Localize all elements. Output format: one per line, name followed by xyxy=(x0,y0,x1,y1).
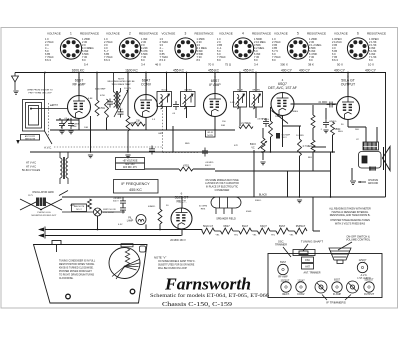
svg-text:VC: VC xyxy=(356,139,359,141)
svg-text:RESISTANCE: RESISTANCE xyxy=(80,31,99,35)
wire junction dots xyxy=(44,72,349,231)
layout tube rectifier xyxy=(281,282,291,292)
chassis rear view (dial drum panel) xyxy=(34,241,148,304)
loop antenna note text xyxy=(27,89,53,95)
svg-text:MESH POSITION WHEN TUNING: MESH POSITION WHEN TUNING xyxy=(59,264,95,266)
svg-text:2: 2 xyxy=(129,31,131,35)
svg-text:LAMP: LAMP xyxy=(127,219,134,222)
svg-text:A 25 MFD 25 VOLT CAPACITOR: A 25 MFD 25 VOLT CAPACITOR xyxy=(205,182,239,185)
svg-text:AT V AC: AT V AC xyxy=(26,164,36,168)
layout tube 12SQ7 AVC 1st audio xyxy=(357,262,367,272)
svg-text:8 0: 8 0 xyxy=(197,58,201,62)
svg-text:CLOCKWISE.: CLOCKWISE. xyxy=(59,278,74,280)
svg-text:IF FREQUENCY: IF FREQUENCY xyxy=(121,182,150,186)
svg-text:300 X: 300 X xyxy=(280,63,288,67)
svg-text:GRN: GRN xyxy=(158,133,163,135)
svg-text:600 V: 600 V xyxy=(205,165,211,167)
svg-text:Schematic for models ET-064, E: Schematic for models ET-064, ET-065, ET-… xyxy=(150,292,269,299)
svg-text:6R 4F: 6R 4F xyxy=(207,132,213,134)
svg-text:5: 5 xyxy=(297,31,299,35)
svg-text:.02MFD: .02MFD xyxy=(329,121,337,123)
svg-text:4700: 4700 xyxy=(100,95,106,97)
note box near switch xyxy=(72,204,87,212)
svg-text:1600 KC: 1600 KC xyxy=(72,68,85,72)
antenna rotor label box xyxy=(21,135,40,141)
tube V1 6SS7 RF AMP xyxy=(68,75,91,119)
svg-text:20 MFD 150 V: 20 MFD 150 V xyxy=(170,239,186,242)
tube socket diagram 3 (VOLTAGE 3 RESISTANCE pin chart) xyxy=(160,31,214,62)
svg-text:NO. 2: NO. 2 xyxy=(76,209,82,211)
svg-text:PRI?? TERM OF LOOP: PRI?? TERM OF LOOP xyxy=(28,92,52,94)
capacitor C15 500MMF xyxy=(276,133,280,139)
capacitor C3 osc padder xyxy=(118,109,124,118)
capacitor C11 B+ bypass xyxy=(149,146,155,155)
tube socket diagram 2 (VOLTAGE 2 RESISTANCE pin chart) xyxy=(104,31,158,62)
svg-text:OSC: OSC xyxy=(118,109,123,111)
svg-text:2.2 MEG: 2.2 MEG xyxy=(241,122,251,125)
capacitor C9 IF coupling xyxy=(173,101,179,110)
note V text xyxy=(154,255,196,270)
svg-text:12SA7: 12SA7 xyxy=(297,279,305,282)
svg-text:10K: 10K xyxy=(137,123,141,125)
svg-text:A.V.C.: A.V.C. xyxy=(44,146,52,150)
svg-text:50L6 GT: 50L6 GT xyxy=(203,224,214,228)
capacitor C7 line bypass .05MFD xyxy=(120,198,126,207)
svg-text:12SQ7: 12SQ7 xyxy=(359,259,367,262)
svg-text:35Z5GT: 35Z5GT xyxy=(281,279,290,282)
layout tube 6SS7 RF AMP xyxy=(278,264,288,274)
tuning condenser note (inside panel) xyxy=(59,261,96,281)
RF antenna trimmer arrow xyxy=(61,119,69,128)
svg-text:BLK: BLK xyxy=(308,157,313,159)
svg-text:75 Ω: 75 Ω xyxy=(225,63,232,67)
svg-text:IF AMP: IF AMP xyxy=(333,293,342,296)
svg-text:BLACK: BLACK xyxy=(259,193,268,196)
svg-text:Farnsworth: Farnsworth xyxy=(164,275,251,294)
svg-text:VOLTAGE: VOLTAGE xyxy=(274,31,288,35)
svg-text:VOL CONT: VOL CONT xyxy=(103,212,115,214)
svg-text:6SS7: 6SS7 xyxy=(334,278,341,281)
svg-text:8 0: 8 0 xyxy=(141,58,145,62)
svg-text:SPEAKER FIELD: SPEAKER FIELD xyxy=(216,217,236,220)
volume control R11 500K with arrow xyxy=(261,138,265,152)
diode return diagonal xyxy=(272,111,289,124)
tube socket diagram 1 (VOLTAGE 1 RESISTANCE pin chart) xyxy=(45,31,99,62)
wave trap note xyxy=(107,78,135,86)
svg-text:6SS7: 6SS7 xyxy=(223,224,230,228)
svg-text:TRIM: TRIM xyxy=(71,126,77,128)
svg-text:REG: REG xyxy=(338,131,343,133)
resistor R12 15K screen xyxy=(131,122,145,126)
svg-text:455 KC: 455 KC xyxy=(129,188,142,192)
svg-text:OSC: OSC xyxy=(305,259,310,262)
chassis top view box xyxy=(268,254,382,298)
IF transformer T1 secondary xyxy=(181,92,196,109)
svg-text:RED: RED xyxy=(70,205,75,207)
svg-text:ON SOME MODELS MAY HAVE: ON SOME MODELS MAY HAVE xyxy=(205,179,239,182)
svg-text:ON SOME MODELS DASH THAT F..: ON SOME MODELS DASH THAT F.. xyxy=(158,260,196,263)
svg-text:NOTE: NOTE xyxy=(118,78,125,80)
B voltage note box xyxy=(116,158,145,170)
svg-text:12-475: 12-475 xyxy=(124,88,132,90)
resistor R10 surge xyxy=(158,209,162,224)
tube V6 35Z5GT RECT xyxy=(171,192,192,229)
svg-text:470Ω: 470Ω xyxy=(99,107,105,110)
svg-text:8 6.3: 8 6.3 xyxy=(45,58,51,62)
layout IF trimmer 1 xyxy=(315,281,327,293)
capacitor C1 cathode bypass xyxy=(59,120,65,129)
svg-text:OSCILLATOR GRID: OSCILLATOR GRID xyxy=(32,191,54,194)
layout tube 6SS7 IF AMP xyxy=(332,282,342,292)
svg-text:6: 6 xyxy=(357,31,359,35)
resistor R1 470 ohm xyxy=(95,100,99,116)
svg-text:RES: RES xyxy=(201,208,206,210)
svg-text:.05 MFD: .05 MFD xyxy=(205,162,214,164)
svg-text:VOLTAGE: VOLTAGE xyxy=(162,31,176,35)
svg-text:50Ω: 50Ω xyxy=(221,125,225,127)
electrolytic note text xyxy=(205,179,239,192)
svg-text:50 X: 50 X xyxy=(337,63,343,67)
resistor R6 grid leak xyxy=(311,115,315,128)
tuning shaft bracket xyxy=(293,250,315,256)
svg-text:8 6.3: 8 6.3 xyxy=(160,58,166,62)
measurement labels under socket charts xyxy=(84,63,374,67)
svg-text:4FF RD: 47V: 4FF RD: 47V xyxy=(123,166,137,169)
svg-text:6SQ7: 6SQ7 xyxy=(260,224,267,228)
svg-text:TUNING SHAFT: TUNING SHAFT xyxy=(301,240,323,244)
svg-text:RF ANT: RF ANT xyxy=(71,122,79,125)
on-off switch S1 xyxy=(62,208,125,216)
svg-text:455 KC: 455 KC xyxy=(173,68,185,72)
svg-text:47K: 47K xyxy=(234,145,238,147)
svg-text:RESISTANCE: RESISTANCE xyxy=(195,31,214,35)
svg-text:470Ω: 470Ω xyxy=(183,165,189,168)
svg-text:FIELD: FIELD xyxy=(255,200,262,202)
loop antenna L1 xyxy=(23,73,68,145)
svg-text:ANT: ANT xyxy=(50,104,55,107)
svg-text:TO RIGHT. DRIVE DRUM TURNS: TO RIGHT. DRIVE DRUM TURNS xyxy=(59,275,94,277)
osc trimmer callout xyxy=(275,239,287,246)
filter choke L3 xyxy=(60,152,68,184)
surge resistor note xyxy=(199,206,207,211)
svg-text:6.8K: 6.8K xyxy=(88,98,93,100)
svg-text:WITH 3 VOLTS FIXED BIAS: WITH 3 VOLTS FIXED BIAS xyxy=(335,222,366,225)
misc component value labels xyxy=(28,88,360,226)
svg-text:4.7MEG: 4.7MEG xyxy=(290,111,298,113)
IF frequency note (boxed) xyxy=(114,180,159,194)
line voltage text xyxy=(22,161,41,173)
tube socket diagram 6 (VOLTAGE 6 RESISTANCE pin chart) xyxy=(332,31,386,62)
svg-text:6SA7: 6SA7 xyxy=(242,224,249,228)
svg-text:600 V: 600 V xyxy=(113,201,119,203)
oscillator coil L2 xyxy=(114,73,121,109)
svg-text:NOTE: NOTE xyxy=(207,135,213,137)
svg-text:CHASSIS: CHASSIS xyxy=(368,179,379,182)
svg-text:KNOB IS TURNED CLOCKWISE.: KNOB IS TURNED CLOCKWISE. xyxy=(59,268,94,270)
svg-text:AT V AC: AT V AC xyxy=(26,161,36,165)
svg-text:RESISTANCE: RESISTANCE xyxy=(307,31,326,35)
svg-text:RESISTANCE: RESISTANCE xyxy=(252,31,271,35)
speaker ground note xyxy=(368,179,379,185)
tube V2 6SA7 CONV xyxy=(135,75,158,118)
layout tube converter xyxy=(296,282,306,292)
svg-text:DET, AVC, 1ST AF: DET, AVC, 1ST AF xyxy=(268,86,297,90)
IF transformer T2 primary xyxy=(234,92,247,109)
svg-text:VOLTAGE: VOLTAGE xyxy=(106,31,120,35)
svg-text:IN PLACE OF ELECTROLYTIC: IN PLACE OF ELECTROLYTIC xyxy=(206,186,238,189)
svg-text:400 CY: 400 CY xyxy=(281,68,293,72)
tube socket diagram 4 (VOLTAGE 4 RESISTANCE pin chart) xyxy=(217,31,271,62)
svg-text:400 CY: 400 CY xyxy=(334,68,346,72)
layout osc/ant trimmer blocks xyxy=(302,257,314,269)
resistor R13 line dropping xyxy=(88,199,92,209)
svg-text:IF TRIMMERS: IF TRIMMERS xyxy=(326,300,345,304)
svg-text:ANT: ANT xyxy=(305,266,310,269)
svg-text:3.4: 3.4 xyxy=(254,63,258,67)
svg-text:455 KC: 455 KC xyxy=(243,68,255,72)
resistor R7 150 ohm cathode xyxy=(331,122,335,135)
svg-text:40MFD: 40MFD xyxy=(148,206,156,208)
svg-text:5.4: 5.4 xyxy=(84,63,88,67)
svg-text:WIRE FROM STATOR TO: WIRE FROM STATOR TO xyxy=(27,89,53,92)
svg-text:400 CY: 400 CY xyxy=(299,68,311,72)
svg-text:OUTPUT: OUTPUT xyxy=(364,293,375,296)
svg-text:8 6.3: 8 6.3 xyxy=(332,58,338,62)
svg-text:VOLTAGE: VOLTAGE xyxy=(47,31,61,35)
IF shield dashed line xyxy=(163,101,199,153)
speaker frame with field coil xyxy=(359,152,382,171)
svg-text:450Ω: 450Ω xyxy=(246,211,252,213)
alignment frequency labels on rail xyxy=(72,68,377,72)
svg-text:70 X: 70 X xyxy=(208,63,214,67)
svg-text:CONDENSER: CONDENSER xyxy=(215,190,230,192)
svg-text:4: 4 xyxy=(242,31,244,35)
svg-text:10 X: 10 X xyxy=(368,63,374,67)
tube V4 6SQ7 DET AVC 1ST AF xyxy=(268,78,297,115)
svg-text:SEE NOTE: SEE NOTE xyxy=(74,206,85,208)
svg-text:8 0: 8 0 xyxy=(369,58,373,62)
oscillator tuning arrow xyxy=(114,90,129,118)
resistor R8 2.2 MEG xyxy=(239,125,253,129)
svg-text:ANT ROTR: ANT ROTR xyxy=(25,135,36,138)
svg-text:4.7 MEG: 4.7 MEG xyxy=(303,145,313,148)
svg-text:46 X: 46 X xyxy=(155,63,161,67)
svg-text:SUBSTITUTED FOR 50 OR MORE: SUBSTITUTED FOR 50 OR MORE xyxy=(158,265,195,267)
svg-text:VOLTAGE: VOLTAGE xyxy=(334,31,348,35)
resistor R3 20K osc grid xyxy=(126,116,130,131)
svg-text:Chassis C-150, C-159: Chassis C-150, C-159 xyxy=(162,302,232,308)
svg-text:50L6GT: 50L6GT xyxy=(364,278,374,281)
svg-text:MOUNTED BY RED DOT: MOUNTED BY RED DOT xyxy=(32,215,58,217)
output transformer T3 (hatched winding) xyxy=(363,142,379,150)
svg-text:PHONO LUG: PHONO LUG xyxy=(37,212,50,214)
capacitor C8 filter xyxy=(120,205,126,214)
svg-text:3.4: 3.4 xyxy=(141,63,145,67)
plug note text xyxy=(32,212,58,217)
svg-text:117V: 117V xyxy=(28,195,33,197)
loudspeaker SP1 cone xyxy=(383,147,391,171)
svg-text:8 6.3: 8 6.3 xyxy=(104,58,110,62)
svg-text:8 0: 8 0 xyxy=(217,58,221,62)
ground symbols xyxy=(59,130,328,203)
AC plug blades xyxy=(38,228,44,232)
schematic interconnect wires xyxy=(30,73,386,236)
svg-text:1: 1 xyxy=(70,31,72,35)
svg-text:8 0: 8 0 xyxy=(309,58,313,62)
IF transformer lead color labels xyxy=(162,89,261,91)
svg-text:RESISTANCE, AND TAKEN FROM B-: RESISTANCE, AND TAKEN FROM B- xyxy=(330,214,371,217)
electrolytic filter condenser C10 xyxy=(211,197,241,214)
svg-text:TUNING CONDENSER IS IN FULL: TUNING CONDENSER IS IN FULL xyxy=(59,261,96,263)
svg-text:50 OHM: 50 OHM xyxy=(199,206,207,208)
capacitor C2 screen bypass xyxy=(68,120,74,129)
svg-text:8 0: 8 0 xyxy=(254,58,258,62)
svg-text:CONV.: CONV. xyxy=(297,293,305,296)
svg-text:10 MFD: 10 MFD xyxy=(296,135,304,137)
svg-text:GROUND: GROUND xyxy=(368,183,379,185)
svg-text:WILL BE FOUND ON LOOP: WILL BE FOUND ON LOOP xyxy=(158,268,187,270)
svg-text:6SS7: 6SS7 xyxy=(280,261,287,264)
svg-text:10MMF: 10MMF xyxy=(275,116,283,118)
svg-text:POINTER MOVES FROM LEFT: POINTER MOVES FROM LEFT xyxy=(59,271,92,273)
svg-text:RED: RED xyxy=(185,143,190,145)
svg-text:1 MEG: 1 MEG xyxy=(262,119,269,121)
B+ top rail wire xyxy=(15,72,386,74)
capacitor C5 .01 MFD coupling xyxy=(327,102,336,108)
oscillator coil with crossed leads xyxy=(20,191,68,211)
svg-text:6.3V: 6.3V xyxy=(118,224,123,226)
svg-text:GREEN: GREEN xyxy=(184,89,192,91)
resistor R9 470 ohm B+ dropping xyxy=(179,167,193,171)
IF transformer T2 secondary xyxy=(250,92,263,109)
capacitor C12 filter input xyxy=(202,148,208,157)
svg-text:WELL INSULATED MAY BE: WELL INSULATED MAY BE xyxy=(107,80,135,83)
pilot lamp xyxy=(136,215,146,225)
tube V5 50L6GT OUTPUT xyxy=(337,75,360,120)
svg-text:35Z5GT: 35Z5GT xyxy=(296,224,306,228)
svg-text:VOLTAGE: VOLTAGE xyxy=(219,31,233,35)
svg-text:RF AMP: RF AMP xyxy=(278,276,288,279)
svg-text:RESISTANCE: RESISTANCE xyxy=(139,31,158,35)
svg-text:50-60 CYCLES: 50-60 CYCLES xyxy=(22,168,41,172)
svg-text:3: 3 xyxy=(185,31,187,35)
svg-text:NOTE “V”: NOTE “V” xyxy=(154,255,166,259)
antenna xyxy=(12,73,19,95)
svg-text:RESISTANCE: RESISTANCE xyxy=(367,31,386,35)
svg-text:8 0: 8 0 xyxy=(82,58,86,62)
svg-text:8 0: 8 0 xyxy=(272,58,276,62)
resistor R14 audio grid xyxy=(311,140,315,152)
tube socket diagram 5 (VOLTAGE 5 RESISTANCE pin chart) xyxy=(272,31,326,62)
capacitor C6 .02 MFD tone xyxy=(323,119,329,128)
svg-text:VOLUME CONTROL: VOLUME CONTROL xyxy=(346,238,371,242)
svg-text:SEE NOTE: SEE NOTE xyxy=(25,139,36,141)
filament heater string xyxy=(202,228,215,234)
note box right of IF xyxy=(206,130,216,137)
svg-text:1600 KC: 1600 KC xyxy=(125,68,138,72)
resistor R4 diode load 500K xyxy=(269,121,273,137)
svg-text:38 K: 38 K xyxy=(308,63,314,67)
speaker (top view) xyxy=(329,248,351,264)
svg-text:RECT.: RECT. xyxy=(282,293,290,296)
svg-text:TRIMMER: TRIMMER xyxy=(275,243,287,247)
svg-text:3-30: 3-30 xyxy=(230,102,235,104)
meter readings note xyxy=(329,207,371,225)
tube V3 6SS7 IF AMP xyxy=(204,75,227,116)
svg-text:400 CY: 400 CY xyxy=(365,68,377,72)
svg-text:455 KC: 455 KC xyxy=(208,68,220,72)
svg-text:VC: VC xyxy=(251,146,255,149)
IF transformer T1 primary xyxy=(157,92,172,109)
layout IF trimmer 2 xyxy=(347,281,359,293)
capacitor C4 .05MFD det xyxy=(263,118,269,127)
resistor R2 plate load xyxy=(105,99,109,118)
layout tube 50L6GT output xyxy=(364,282,374,292)
capacitor C13 osc trimmer xyxy=(107,99,113,108)
volume control callout xyxy=(346,234,371,241)
svg-text:ANT. TRIMMER: ANT. TRIMMER xyxy=(304,271,321,274)
svg-text:SWITCH ON: SWITCH ON xyxy=(103,209,116,211)
svg-text:6SS7: 6SS7 xyxy=(279,224,286,228)
tuning gang link (dashed) xyxy=(48,103,50,140)
resistor R5 4.7MEG audio xyxy=(298,139,302,156)
svg-text:10Ω: 10Ω xyxy=(84,127,88,129)
